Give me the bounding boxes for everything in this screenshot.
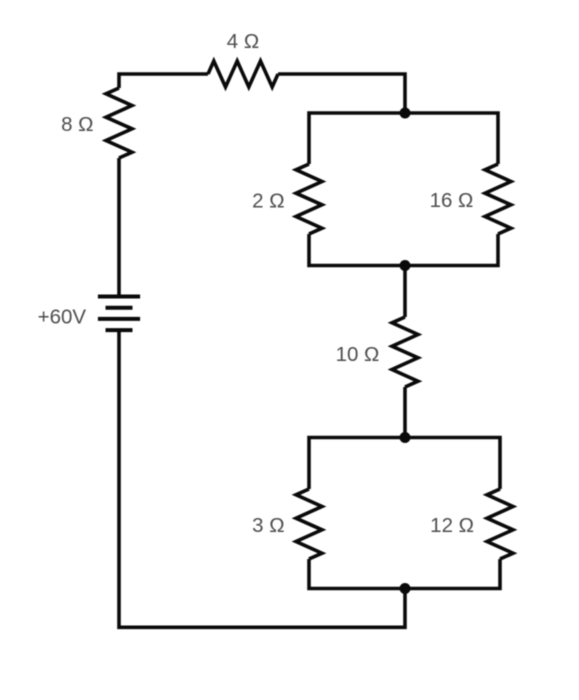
- battery long plate (lower positive): [98, 317, 140, 321]
- svg-text:2 Ω: 2 Ω: [252, 190, 284, 213]
- node C (junction at top of 3/12 pair): [400, 432, 411, 443]
- wire: bottom rail of 2/16 parallel pair: [309, 234, 498, 266]
- wire: 4-ohm right to node A: [278, 74, 405, 113]
- svg-text:3 Ω: 3 Ω: [252, 514, 284, 537]
- battery short plate (upper negative): [106, 306, 133, 310]
- wire: top-left corner (8-ohm top to 4-ohm left): [119, 74, 208, 88]
- resistor 4 ohm: [208, 61, 278, 87]
- node B (junction at bottom of 2/16 pair): [400, 260, 411, 271]
- resistor 16 ohm: [485, 164, 511, 234]
- resistor 12 ohm: [487, 489, 513, 559]
- battery +60V long plate (top, positive): [98, 295, 140, 299]
- wire: 8-ohm bottom to battery positive plate: [117, 158, 121, 297]
- svg-text:10 Ω: 10 Ω: [336, 343, 380, 366]
- svg-text:12 Ω: 12 Ω: [430, 514, 474, 537]
- wire: bottom rail of 3/12 parallel pair: [309, 559, 500, 589]
- resistor 10 ohm: [392, 317, 418, 387]
- resistor 3 ohm: [296, 489, 322, 559]
- node D (junction at bottom of 3/12 pair): [400, 583, 411, 594]
- wire: top rail of 2/16 parallel pair: [309, 113, 498, 164]
- svg-text:16 Ω: 16 Ω: [430, 189, 474, 212]
- svg-text:4 Ω: 4 Ω: [227, 30, 259, 53]
- svg-text:+60V: +60V: [38, 306, 87, 329]
- battery short plate (bottom, negative): [106, 328, 133, 332]
- wire: 10-ohm bottom to node C: [403, 387, 407, 438]
- wire: top rail of 3/12 parallel pair: [309, 438, 500, 490]
- node A (junction at top of 2/16 pair): [400, 108, 411, 119]
- wire: battery negative down left side to bottom rail and across to bottom node: [119, 330, 405, 627]
- resistor 8 ohm: [106, 88, 132, 158]
- wire: node B down to 10-ohm top: [403, 266, 407, 318]
- svg-text:8 Ω: 8 Ω: [61, 113, 93, 136]
- resistor 2 ohm: [296, 164, 322, 234]
